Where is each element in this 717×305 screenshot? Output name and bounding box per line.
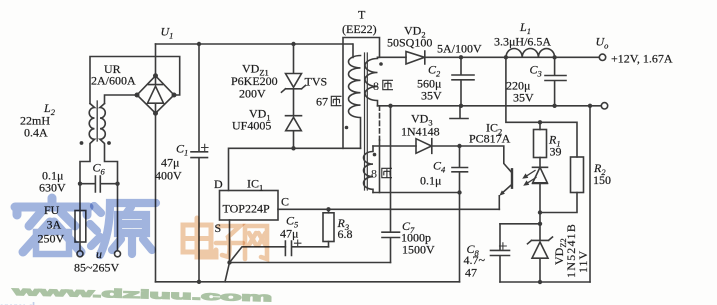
diode VDZ1 TVS P6KE200 (282, 44, 306, 92)
svg-text:Uo: Uo (596, 35, 609, 51)
diode VD3 1N4148 (416, 139, 460, 154)
node ground drop junction (588, 104, 592, 108)
svg-text:C6: C6 (93, 161, 106, 177)
wire drain node (229, 148, 361, 190)
svg-text:www.dziuu.com: www.dziuu.com (10, 284, 272, 304)
svg-text:IC1: IC1 (247, 177, 263, 193)
optocoupler IC2 phototransistor (511, 169, 513, 187)
wire ground return drop (589, 106, 591, 282)
svg-text:+12V, 1.67A: +12V, 1.67A (611, 52, 673, 66)
wire VD3 feedback (373, 145, 416, 147)
svg-text:2A/600A: 2A/600A (91, 74, 136, 88)
node R1 top junction (538, 120, 542, 124)
LED optocoupler diode (533, 167, 548, 212)
inductor L1 (506, 48, 555, 57)
terminal output positive (599, 54, 605, 60)
node C4 bottom junction (457, 190, 461, 194)
svg-text:6.8: 6.8 (338, 227, 353, 241)
bridge rectifier UR (137, 76, 174, 113)
node L1 left junction (504, 55, 508, 59)
resistor R1 (539, 122, 541, 129)
svg-text:35V: 35V (421, 89, 442, 103)
ground chassis symbol (450, 106, 468, 119)
terminal output ground (601, 103, 607, 109)
svg-text:5A/100V: 5A/100V (437, 42, 482, 56)
svg-text:C3: C3 (530, 63, 542, 79)
wire R1 R2 feed (506, 57, 577, 157)
wire bridge top riser (155, 44, 157, 76)
node C1 bottom junction (197, 280, 201, 284)
diode VD1 UF4005 (286, 89, 302, 149)
transformer core (365, 53, 368, 190)
svg-text:630V: 630V (39, 181, 66, 195)
node L1 right junction (552, 55, 556, 59)
wire S to rail diagonal (225, 263, 230, 282)
wire S pin (229, 220, 231, 263)
node D clamp junction (291, 146, 295, 150)
svg-text:C: C (281, 195, 289, 209)
svg-text:85~265V: 85~265V (74, 261, 119, 275)
svg-text:www.d: www.d (0, 300, 35, 305)
svg-text:(EE22): (EE22) (342, 22, 377, 36)
wire AC upper loop to bridge right vertex (90, 57, 180, 104)
diode VD2 50SQ100 (406, 51, 425, 64)
svg-text:PC817A: PC817A (469, 132, 511, 146)
svg-text:47: 47 (465, 266, 477, 280)
capacitor C5 (285, 241, 328, 256)
svg-text:0.1μ: 0.1μ (420, 174, 441, 188)
fuse FU (75, 211, 86, 243)
wire top rail U1 (156, 43, 353, 45)
wire S to C5 diagonal (230, 247, 286, 263)
svg-text:TVS: TVS (305, 75, 328, 89)
capacitor C4 (452, 146, 468, 193)
svg-text:1500V: 1500V (402, 243, 435, 257)
watermark orange wang glyph (245, 226, 267, 259)
svg-text:3.3μH/6.5A: 3.3μH/6.5A (494, 35, 551, 49)
watermark blue rong glyph (15, 198, 89, 254)
capacitor C6 (80, 176, 118, 192)
node R3 top junction (326, 207, 330, 211)
wire secondary bottom rail (500, 281, 590, 283)
capacitor C2 (452, 57, 474, 106)
svg-text:8: 8 (371, 167, 377, 181)
svg-text:400V: 400V (155, 169, 182, 183)
watermark blue yuan glyph (90, 203, 156, 255)
transformer secondary winding 8T (365, 57, 378, 106)
transformer T EE22 outline (343, 38, 380, 149)
node C4 top junction (457, 144, 461, 148)
svg-text:UF4005: UF4005 (232, 119, 271, 133)
label 67 turns zha glyph (331, 96, 341, 105)
svg-text:67: 67 (316, 95, 328, 109)
node S junction (227, 260, 231, 264)
svg-text:T: T (358, 8, 366, 22)
watermark orange zi glyph (216, 226, 243, 257)
node C8 tap junction (538, 222, 542, 226)
capacitor C1 (191, 44, 208, 282)
transformer primary winding 67T (349, 44, 361, 148)
capacitor C8 (491, 224, 510, 282)
node C7 top junction (388, 104, 392, 108)
svg-text:47μ: 47μ (161, 156, 179, 170)
wire secondary ground rail (378, 105, 602, 107)
wire S line (230, 262, 391, 264)
svg-text:TOP224P: TOP224P (223, 202, 270, 216)
node LED cathode junction (538, 210, 542, 214)
watermark orange dian glyph (183, 218, 216, 257)
wire output rail (424, 56, 599, 58)
svg-text:C4: C4 (433, 159, 446, 175)
terminal AC right (115, 251, 121, 257)
svg-text:0.4A: 0.4A (24, 126, 48, 140)
wire control pin line (278, 208, 499, 210)
svg-text:D: D (214, 177, 223, 191)
svg-text:50SQ100: 50SQ100 (387, 36, 432, 50)
node clamp rail junction (291, 42, 295, 46)
wire C8 link (500, 213, 540, 224)
terminal AC left (77, 251, 83, 257)
capacitor C7 (382, 106, 400, 263)
transformer feedback winding 8T (364, 146, 374, 193)
wire secondary top to VD2 (378, 56, 407, 58)
wire AC path to bridge left vertex (105, 95, 138, 104)
svg-text:200V: 200V (239, 87, 266, 101)
resistor R3 (328, 209, 330, 213)
svg-text:47μ: 47μ (280, 227, 298, 241)
IC1 TOP224P box (220, 191, 279, 221)
node VDZ2 bottom junction (538, 280, 542, 284)
svg-text:150: 150 (593, 173, 611, 187)
svg-text:35V: 35V (513, 91, 534, 105)
wire feedback return (373, 193, 460, 282)
svg-text:39: 39 (550, 145, 562, 159)
node U1 rail junction A (197, 42, 201, 46)
svg-text:11V: 11V (576, 250, 590, 273)
inductor L2 common-mode choke (96, 101, 98, 141)
capacitor C3 (545, 57, 566, 106)
wire bridge bottom drop (155, 113, 157, 282)
resistor R2 (571, 157, 584, 193)
diode VDZ2 1N5241B (528, 224, 553, 282)
svg-text:1N4148: 1N4148 (401, 125, 440, 139)
svg-text:8: 8 (373, 79, 379, 93)
svg-text:U1: U1 (161, 25, 174, 41)
wire primary bottom rail (156, 281, 460, 283)
